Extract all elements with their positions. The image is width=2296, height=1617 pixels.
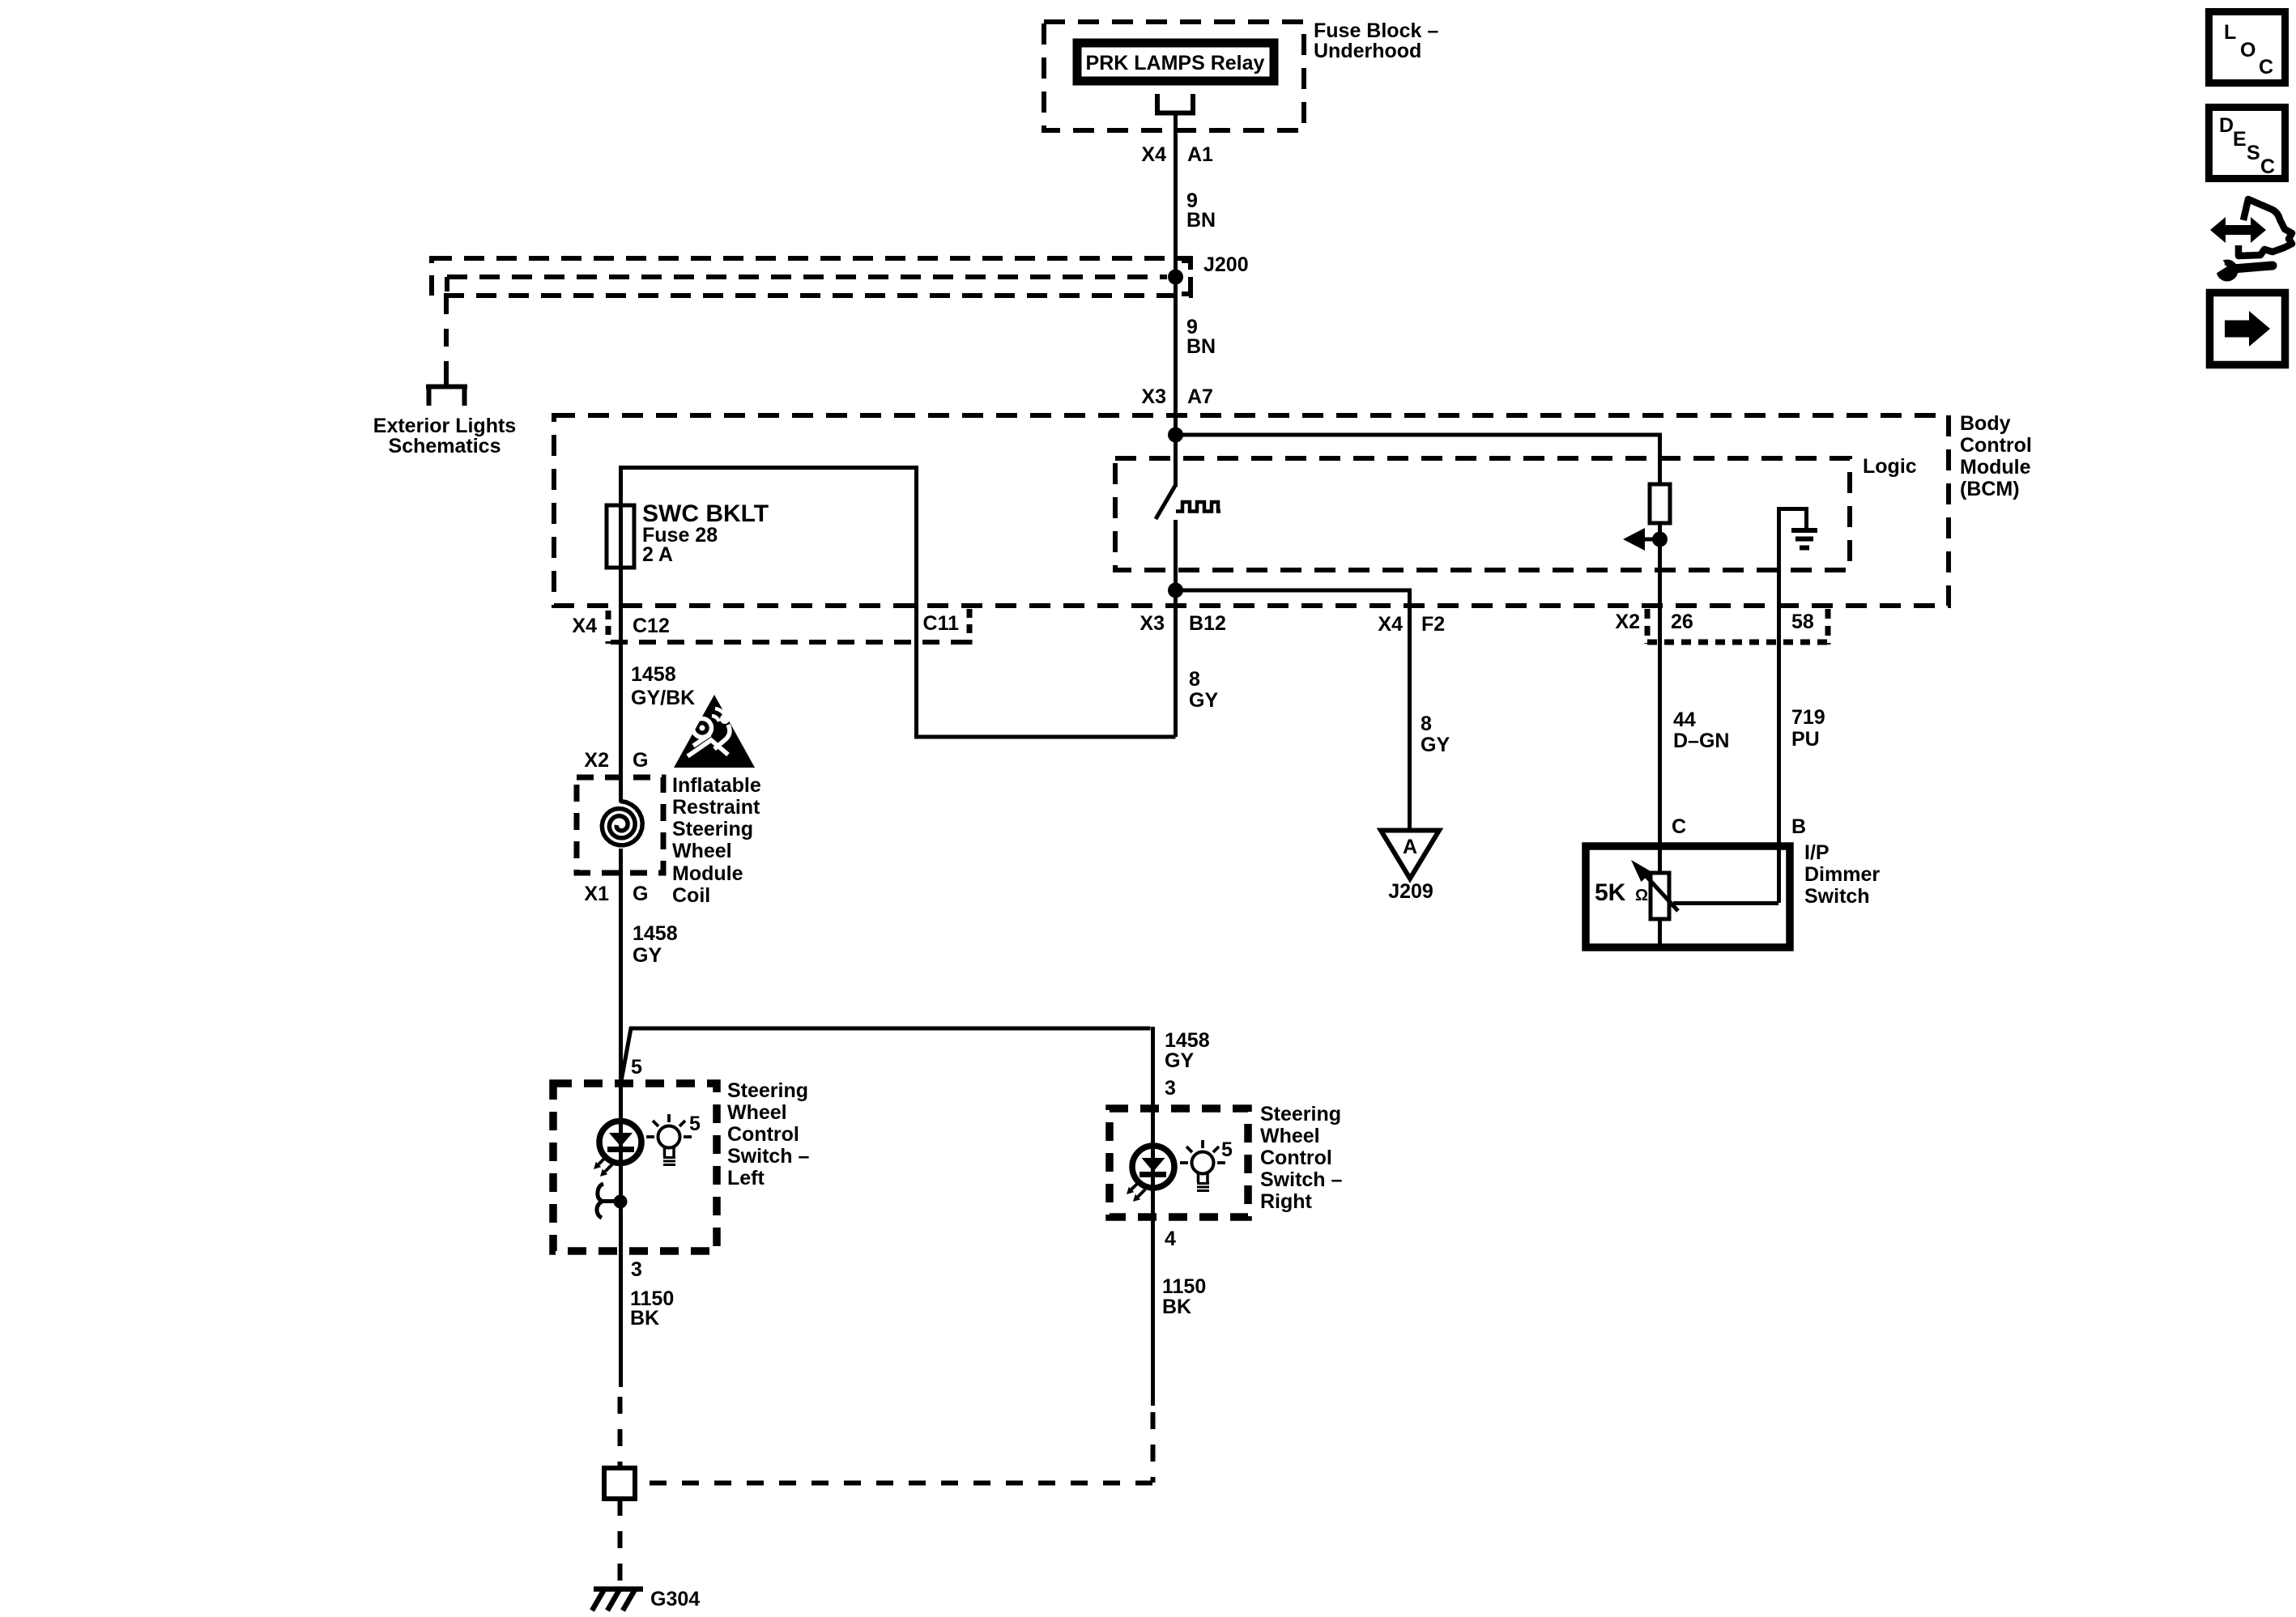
svg-text:A1: A1 [1187,143,1213,166]
pulse waveform symbol [1176,502,1220,512]
svg-text:BK: BK [630,1307,659,1330]
svg-text:1458: 1458 [631,663,676,686]
svg-text:O: O [2240,39,2256,62]
svg-text:D: D [2219,114,2234,137]
svg-text:Left: Left [727,1167,765,1189]
splice J200 bus (outer dashed outline) [432,258,1191,296]
svg-text:Inflatable: Inflatable [672,774,761,797]
wire: relay output, circuit 9 BN [1174,113,1178,487]
svg-text:GY/BK: GY/BK [631,687,695,709]
ground symbol inside BCM logic [1779,509,1807,605]
component box: SRS coil (dashed) [577,777,663,873]
airbag warning triangle [674,695,755,768]
svg-text:X4: X4 [1141,143,1166,166]
svg-text:Module: Module [1960,456,2031,479]
connector separator at X4 [606,611,611,644]
svg-text:Restraint: Restraint [672,796,760,819]
svg-text:A7: A7 [1187,385,1213,408]
svg-text:B12: B12 [1189,612,1226,635]
svg-text:Dimmer: Dimmer [1804,863,1880,886]
resistor: BCM internal pull-up [1650,484,1670,523]
body control module BCM (dashed box) [554,415,1949,606]
svg-text:J209: J209 [1388,880,1433,903]
splice J200 right corner marks [1182,261,1191,294]
node: junction dot below resistor [1652,532,1668,547]
connector separator at C11 [967,609,973,645]
svg-text:Wheel: Wheel [1260,1125,1320,1147]
logic block (dashed box) [1115,458,1850,570]
svg-text:8: 8 [1189,668,1200,691]
node: junction dot at A7 feed [1168,428,1183,443]
svg-text:Exterior Lights: Exterior Lights [373,415,516,437]
svg-text:Wheel: Wheel [727,1101,787,1124]
svg-text:Coil: Coil [672,884,710,907]
svg-text:X2: X2 [1615,611,1640,633]
svg-text:44: 44 [1673,709,1696,731]
wire: fuse to pin C12 and coil [619,568,623,802]
svg-text:C12: C12 [633,615,670,637]
svg-text:BN: BN [1186,209,1216,232]
svg-text:C11: C11 [923,612,960,635]
svg-text:719: 719 [1791,706,1825,729]
wire: branch to BCM pull-up resistor [1176,435,1660,484]
connector band X2 (dashed sub-box) [1647,609,1828,645]
svg-text:Body: Body [1960,412,2011,435]
svg-text:C: C [1672,815,1686,838]
momentary contact curl (left switch) [597,1184,616,1218]
svg-text:G: G [633,749,648,772]
LED D2 (right backlight) [1127,1108,1174,1406]
svg-text:BK: BK [1162,1296,1191,1318]
svg-text:Ω: Ω [1635,887,1648,904]
svg-text:26: 26 [1671,611,1693,633]
node: junction dot (left switch) [614,1195,628,1209]
ground G304 (chassis) [592,1589,643,1611]
svg-text:Right: Right [1260,1190,1313,1213]
LED D1 (left backlight) [594,1083,641,1251]
svg-text:X1: X1 [584,883,609,905]
svg-text:3: 3 [631,1258,642,1281]
svg-text:L: L [2224,21,2236,44]
switch: BCM logic driver (blade) [1156,485,1176,519]
svg-text:Control: Control [727,1123,799,1146]
svg-text:E: E [2233,128,2247,151]
wiper arrow through pot [1642,872,1678,911]
svg-text:1150: 1150 [1162,1275,1206,1298]
wire: branch to right switch (diagonal + horizontal) [621,1027,1153,1108]
potentiometer 5K (resistor) [1651,873,1669,919]
svg-text:Logic: Logic [1863,455,1917,478]
svg-text:X3: X3 [1139,612,1165,635]
wire: pin 58 to dimmer switch B (719 PU) [1777,604,1781,903]
svg-text:I/P: I/P [1804,841,1830,864]
icon: LOC reference box [2209,12,2285,83]
wire: dashed jumper from right switch to splice [1151,1412,1156,1483]
svg-text:GY: GY [1165,1049,1194,1072]
connector pin symbol below relay [1155,94,1195,113]
svg-text:1458: 1458 [633,922,678,945]
icon: continuation arrow box [2210,293,2285,365]
component box: steering wheel control switch - right (dashed) [1110,1108,1248,1217]
wire: dashed drop to exterior lights schematics [444,296,449,379]
wire through coil [619,849,623,1083]
clockspring coil symbol (spiral) [602,802,642,845]
svg-text:GY: GY [1189,689,1218,712]
splice junction dot J200 [1168,270,1183,285]
svg-text:S: S [2247,142,2260,164]
wire: left switch to splice (solid then dashed) [619,1251,623,1387]
svg-text:Steering: Steering [1260,1103,1341,1126]
icon: DESC reference box [2209,108,2285,179]
fuse F28: SWC BKLT Fuse 28 2A [607,505,634,568]
splice triangle J209 with A [1381,831,1439,879]
svg-text:5: 5 [689,1113,701,1135]
wire: B12 external jumper up through C11 to fuse [621,468,1176,738]
node: junction dot at F2 branch [1168,583,1183,598]
splice block S [604,1468,635,1499]
svg-text:5: 5 [631,1056,642,1079]
svg-text:F2: F2 [1421,613,1445,636]
svg-text:X4: X4 [572,615,597,637]
svg-text:Wheel: Wheel [672,840,732,862]
svg-text:Steering: Steering [672,818,753,840]
svg-text:Fuse Block –: Fuse Block – [1314,19,1438,42]
icon: service hand with arrow and wrench [2210,199,2292,282]
svg-text:G304: G304 [650,1588,700,1611]
wire: switch output to B12 [1174,520,1178,737]
svg-text:PU: PU [1791,728,1820,751]
svg-text:A: A [1403,836,1417,858]
svg-text:Module: Module [672,862,743,885]
svg-text:GY: GY [1421,734,1450,756]
svg-text:G: G [633,883,648,905]
svg-text:GY: GY [633,944,662,967]
svg-text:X2: X2 [584,749,609,772]
component box: I/P dimmer switch [1586,846,1790,947]
splice J200 bus (inner dashed line) [447,274,1167,279]
svg-text:Control: Control [1260,1147,1332,1169]
lamp symbol (right) with 5 [1180,1140,1225,1191]
svg-text:4: 4 [1165,1228,1176,1250]
relay K: PRK LAMPS Relay [1077,43,1274,81]
svg-text:5: 5 [1221,1138,1233,1161]
wire: pot bottom to box bottom [1658,919,1662,944]
svg-text:X3: X3 [1141,385,1166,408]
svg-text:58: 58 [1791,611,1814,633]
svg-text:PRK LAMPS Relay: PRK LAMPS Relay [1086,52,1265,74]
svg-text:BN: BN [1186,335,1216,358]
svg-text:1458: 1458 [1165,1029,1210,1052]
svg-text:X4: X4 [1378,613,1403,636]
connector band X4 C12/C11 (lower dashed line) [611,640,969,645]
svg-text:C: C [2260,155,2275,178]
svg-text:Switch –: Switch – [727,1145,810,1168]
wire: resistor to pin 26 [1658,523,1662,873]
svg-text:Control: Control [1960,434,2032,457]
svg-text:Switch –: Switch – [1260,1168,1343,1191]
svg-text:Switch: Switch [1804,885,1870,908]
lamp symbol (left) with 5 [646,1114,692,1165]
svg-text:Steering: Steering [727,1079,808,1102]
svg-text:Schematics: Schematics [389,435,501,457]
svg-text:J200: J200 [1203,253,1249,276]
off-page connector bracket [426,379,467,406]
fuse block - underhood (dashed enclosure) [1044,22,1304,130]
wiper: horizontal link to B [1673,901,1778,905]
svg-text:8: 8 [1421,713,1432,735]
wire: branch to pin F2 and J209 [1176,590,1410,828]
svg-text:(BCM): (BCM) [1960,478,2020,500]
svg-text:5K: 5K [1595,879,1626,906]
svg-text:C: C [2259,56,2273,79]
wire: splice to ground (dashed) [618,1499,623,1589]
svg-text:D–GN: D–GN [1673,730,1729,752]
svg-text:B: B [1791,815,1806,838]
component box: steering wheel control switch - left (dashed) [553,1083,717,1251]
svg-text:Underhood: Underhood [1314,40,1421,62]
svg-text:2 A: 2 A [642,543,673,566]
signal arrow (analog input) [1642,538,1659,542]
svg-text:3: 3 [1165,1077,1176,1100]
